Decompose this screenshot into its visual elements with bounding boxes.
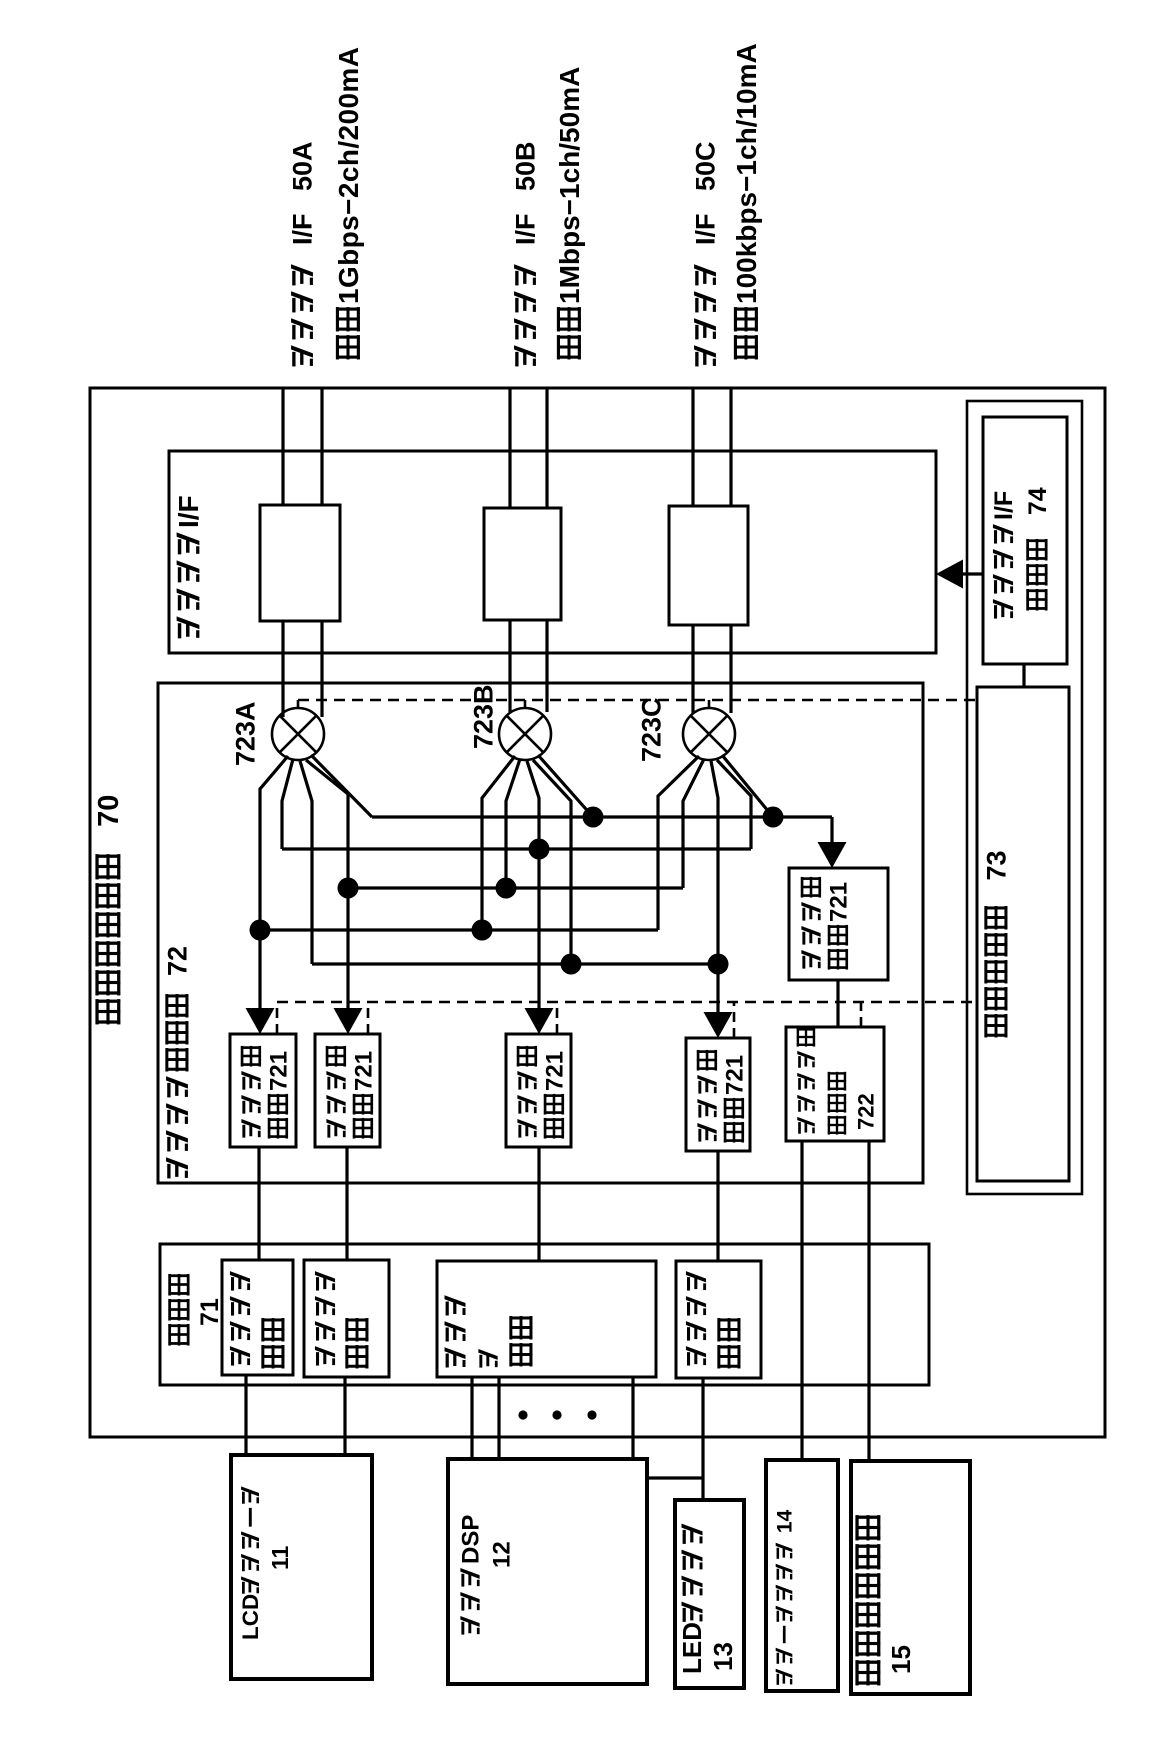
svg-text:721: 721 <box>541 1051 568 1091</box>
bus wire 4 <box>260 928 658 931</box>
label 帯域100kbps-1ch/10mA <box>731 43 762 359</box>
bus wire 5 <box>312 962 718 965</box>
svg-text:13: 13 <box>708 1642 738 1671</box>
label 変換部 71 <box>168 1274 224 1346</box>
box: header removal unit 721 #4 (ヘッダ除去部721) <box>686 1038 750 1151</box>
svg-text:723B: 723B <box>468 684 498 749</box>
wire stub: camera DSP to LED driver line <box>647 1476 703 1479</box>
svg-text:721: 721 <box>825 882 852 922</box>
svg-text:72: 72 <box>162 946 192 991</box>
ellipsis dots (more lines) <box>518 1410 596 1419</box>
svg-text:70: 70 <box>93 795 125 851</box>
svg-text:12: 12 <box>488 1541 515 1568</box>
wire+arrow: 74 to serial I/F <box>962 572 983 575</box>
serial I/F chip A <box>260 505 340 621</box>
label 723A <box>230 701 260 766</box>
box: camera DSP 12 (カメラDSP 12) <box>448 1459 647 1684</box>
wire fan-out of mixer 723A <box>260 755 372 1011</box>
mixer circle 723B <box>499 708 551 760</box>
label シリアル I/F 50A <box>287 141 317 366</box>
label シリアル I/F 50B <box>511 141 541 366</box>
arrow into header removal 721 #2 <box>334 1008 363 1034</box>
svg-text:14: 14 <box>773 1509 796 1539</box>
wire: parallel-serial to camera DSP (line 3) <box>631 1377 634 1459</box>
box: packet processing unit 72 (パケット処理部72) <box>158 683 923 1183</box>
arrowhead to serial I/F <box>936 560 963 589</box>
label 帯域1Gbps-2ch/200mA <box>333 47 364 360</box>
svg-text:722: 722 <box>854 1093 879 1130</box>
wire: channel A to external 50A (two lines) <box>283 388 322 505</box>
bus wire 3 <box>348 886 683 889</box>
wire: 721#4 to conversion #3 <box>716 1151 719 1261</box>
wire: channel C to external 50C (two lines) <box>693 388 731 506</box>
outer box: receiver-side control unit 70 (受信側制御部 70) <box>90 388 1105 1437</box>
wire: chip C to mixer 723C (two lines) <box>693 625 731 713</box>
mixer circle 723A <box>272 708 324 760</box>
wire: conversion #2 to LCD module <box>343 1377 346 1455</box>
box: header removal unit 721 #2 (ヘッダ除去部721) <box>315 1034 380 1147</box>
mixer circle 723C <box>683 708 735 760</box>
arrow into header removal 721 upper <box>818 842 847 868</box>
svg-text:721: 721 <box>350 1051 377 1091</box>
serial I/F chip B <box>484 508 561 620</box>
wire: chip A to mixer 723A (two lines) <box>283 621 322 717</box>
arrow into header removal 721 #3 <box>525 1008 554 1034</box>
svg-text:721: 721 <box>721 1055 748 1095</box>
box: header removal unit 721 #1 (ヘッダ除去部721) <box>230 1034 296 1147</box>
wire: 722 to open/close detection <box>867 1141 870 1461</box>
wire: channel B to external 50B (two lines) <box>510 388 547 508</box>
box: superposition control unit 73 (重畳制御部 73) <box>977 687 1069 1181</box>
wire: 722 to speaker amp <box>800 1141 803 1460</box>
box: depacketizing unit 722 (パケット化解除部722) <box>786 1027 884 1141</box>
box: serial-serial conversion #3 (シリシリ変換) <box>676 1261 761 1378</box>
arrow into header removal 721 #4 <box>704 1012 733 1038</box>
svg-text:11: 11 <box>267 1545 293 1570</box>
svg-text:721: 721 <box>265 1051 292 1091</box>
label シリアルI/F <box>173 495 204 638</box>
box: parallel-serial conversion (パラシリ変換) <box>437 1261 656 1377</box>
svg-text:73: 73 <box>982 850 1012 903</box>
wire: conversion #3 to LED driver <box>701 1378 704 1500</box>
box: serial-serial conversion #2 (シリシリ変換) <box>304 1260 389 1377</box>
label パケット処理部 72 <box>162 946 192 1178</box>
label 723C <box>637 697 667 762</box>
svg-text:723C: 723C <box>637 697 667 762</box>
box: open/close detection mechanism 15 (開閉検出機構 15) <box>851 1461 970 1694</box>
box: header removal unit 721 #3 (ヘッダ除去部721) <box>506 1034 571 1147</box>
wire: chip B to mixer 723B (two lines) <box>510 620 547 712</box>
svg-text:I/F: I/F <box>990 491 1018 520</box>
svg-text:I/F 50B: I/F 50B <box>511 141 541 260</box>
wire: 721#2 to conversion #2 <box>345 1147 348 1260</box>
svg-text:LCD: LCD <box>238 1594 263 1640</box>
svg-text:I/F 50A: I/F 50A <box>287 141 317 260</box>
wire fan-out of mixer 723C <box>658 755 773 1015</box>
svg-text:LED: LED <box>677 1622 707 1674</box>
svg-text:1Mbps−1ch/50mA: 1Mbps−1ch/50mA <box>554 67 585 304</box>
svg-text:1Gbps−2ch/200mA: 1Gbps−2ch/200mA <box>333 47 364 304</box>
svg-text:100kbps−1ch/10mA: 100kbps−1ch/10mA <box>731 43 762 304</box>
junction dots <box>250 807 784 975</box>
svg-text:71: 71 <box>196 1298 224 1326</box>
wire: 721 upper to 722 <box>836 980 839 1027</box>
box: LED driver 13 (LEDドライバ 13) <box>675 1500 744 1688</box>
wire: parallel-serial to camera DSP (line 2) <box>497 1377 500 1459</box>
svg-text:723A: 723A <box>230 701 260 766</box>
wire: 721#3 to parallel-serial conversion <box>537 1147 540 1261</box>
group box for control units 73/74 <box>967 401 1082 1194</box>
dashed control line to header removal units <box>277 1002 977 1038</box>
serial I/F chip C <box>669 506 748 625</box>
wire: parallel-serial to camera DSP (line 1) <box>470 1377 473 1459</box>
bus wire 2 <box>282 847 751 850</box>
svg-text:I/F 50C: I/F 50C <box>691 141 721 260</box>
box: speaker amp 14 (スピーカアンプ 14) <box>766 1460 838 1691</box>
box: LCD module 11 (LCDモジュール 11) <box>231 1455 372 1679</box>
label 723B <box>468 684 498 749</box>
svg-text:I/F: I/F <box>173 495 204 528</box>
svg-text:74: 74 <box>1024 487 1052 536</box>
label シリアル I/F 50C <box>691 141 721 366</box>
label 受信側制御部 70 <box>93 795 125 1025</box>
wire fan-out of mixer 723B <box>482 755 593 1011</box>
wire: 721#1 to conversion #1 <box>257 1147 260 1260</box>
box: serial I/F unit (シリアルI/F) <box>169 451 936 653</box>
dashed control line from mixers to superposition control 73 <box>298 700 977 708</box>
box: header removal unit 721 upper (ヘッダ除去部721) <box>789 868 888 980</box>
box: conversion unit 71 (変換部71) <box>160 1244 929 1385</box>
arrow into header removal 721 #1 <box>246 1008 275 1034</box>
box: serial-serial conversion #1 (シリシリ変換) <box>222 1260 293 1375</box>
svg-text:DSP: DSP <box>457 1515 484 1564</box>
wire: conversion #1 to LCD module <box>244 1375 247 1455</box>
box: serial I/F control unit 74 (シリアルI/F制御部 74) <box>983 417 1067 664</box>
label 帯域1Mbps-1ch/50mA <box>554 67 585 360</box>
svg-text:15: 15 <box>886 1645 916 1674</box>
wire: 73 to 74 <box>1022 664 1025 687</box>
bus wire 1 (to header removal 721 upper) <box>372 817 832 846</box>
